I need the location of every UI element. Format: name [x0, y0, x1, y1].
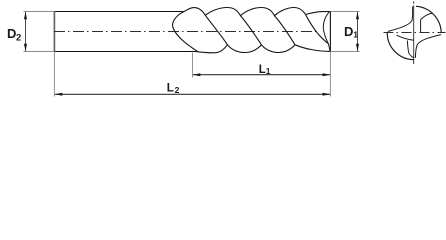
- end view tooth face lower left: [397, 35, 414, 40]
- D2 arrow down: [24, 44, 27, 52]
- svg-text:2: 2: [16, 32, 21, 43]
- svg-text:2: 2: [175, 85, 180, 95]
- L2 arrow left: [55, 93, 63, 96]
- flute bottom scallop 1: [195, 45, 228, 53]
- tip face vertical: [329, 12, 331, 52]
- L2 extension line right: [329, 52, 331, 97]
- end view flute face lower right: [415, 35, 441, 58]
- L1 dimension line: [193, 74, 330, 76]
- flute lobe 1 with helix tail: [185, 8, 228, 45]
- L2 dimension line: [55, 93, 330, 95]
- flute lobe 4 with helix tail: [275, 8, 328, 44]
- end view circle arc lower left: [387, 32, 414, 59]
- end view vertical line: [413, 1, 415, 64]
- end view centerline: [384, 32, 446, 34]
- flute lobe 2 with helix tail: [205, 8, 261, 45]
- shank top edge: [54, 11, 185, 13]
- end view tooth gash upper right: [421, 13, 433, 20]
- L1 extension line left: [192, 53, 194, 78]
- tip gash connector: [328, 44, 330, 51]
- tip inner edge curve: [323, 12, 329, 44]
- end view tooth heel lower left: [407, 41, 408, 54]
- D1 arrow down: [356, 44, 359, 52]
- flute bottom scallop 2: [228, 45, 262, 53]
- flute start curve: [172, 11, 197, 51]
- L1 arrow left: [193, 73, 201, 76]
- end view gash connector lower left: [409, 53, 414, 57]
- end view flute face upper left: [388, 6, 413, 31]
- D1 arrow up: [356, 12, 359, 20]
- end view circle arc upper right: [416, 6, 441, 33]
- L1 arrow right: [323, 73, 331, 76]
- shank left end face: [53, 11, 55, 52]
- svg-text:1: 1: [266, 66, 271, 76]
- svg-text:1: 1: [353, 29, 358, 39]
- flute bottom scallop 4 to tip: [295, 45, 330, 52]
- D1 extension line top: [331, 11, 360, 13]
- svg-text:D: D: [344, 24, 353, 39]
- D2 dimension line: [25, 12, 27, 51]
- flute top rise to tip: [306, 12, 331, 15]
- svg-text:L: L: [167, 83, 174, 95]
- flute lobe 3 with helix tail: [241, 8, 296, 45]
- D2 arrow up: [24, 12, 27, 20]
- L2 arrow right: [323, 93, 331, 96]
- flute bottom scallop 3: [262, 45, 296, 53]
- centerline side view: [54, 31, 318, 33]
- D1 extension line bottom: [331, 51, 360, 53]
- svg-text:L: L: [259, 64, 266, 76]
- shank bottom edge: [54, 51, 195, 53]
- end view tooth line upper right: [420, 20, 422, 33]
- svg-text:D: D: [7, 26, 16, 41]
- L2 extension line left: [53, 52, 55, 97]
- D2 extension line top: [24, 11, 55, 13]
- D1 dimension line: [357, 12, 359, 51]
- D2 extension line bottom: [24, 51, 55, 53]
